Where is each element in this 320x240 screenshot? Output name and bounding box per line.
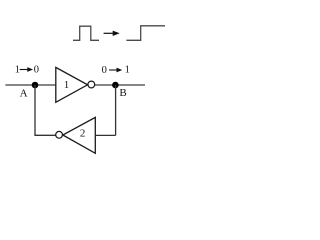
svg-text:A: A [20, 87, 28, 99]
wire: input to node A [5, 84, 35, 86]
wire: bottom left horizontal to inverter 2 bubble [34, 134, 55, 136]
inverter U1 triangle [56, 67, 88, 102]
svg-text:B: B [119, 87, 126, 99]
svg-text:1: 1 [15, 65, 20, 76]
wire: riser up to node B [115, 85, 117, 135]
inverter U2 output bubble [56, 131, 63, 138]
wire: inverter 2 input to right riser [95, 134, 115, 136]
wire: node B to output [116, 84, 145, 86]
output waveform: step [126, 26, 165, 41]
wire: node A down [34, 85, 36, 135]
svg-text:2: 2 [80, 127, 86, 139]
svg-text:1: 1 [64, 79, 69, 91]
waveform transform arrow [104, 31, 120, 36]
wire: node A to inverter 1 input [35, 84, 56, 86]
input waveform: pulse [73, 26, 99, 40]
svg-text:0: 0 [102, 65, 107, 76]
node A junction dot [32, 82, 39, 89]
svg-text:0: 0 [34, 65, 39, 76]
label 1->0 : arrow [20, 67, 33, 72]
node B junction dot [112, 82, 119, 89]
inverter U2 triangle (points left) [63, 117, 96, 153]
label 0->1 : arrow [109, 68, 122, 73]
svg-text:1: 1 [125, 65, 130, 76]
wire: inverter 1 bubble to node B [95, 84, 116, 86]
inverter U1 output bubble [88, 81, 95, 88]
